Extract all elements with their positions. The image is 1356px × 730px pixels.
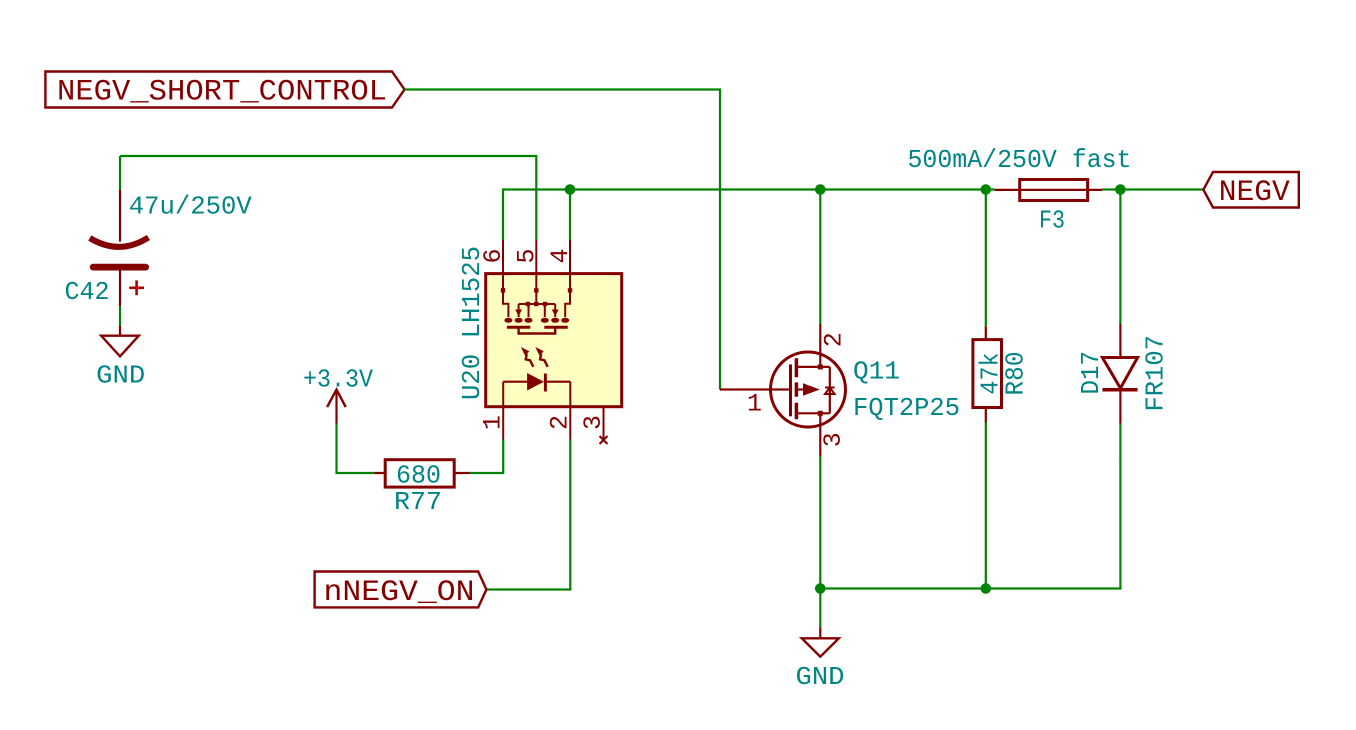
- U20 pin 4: [546, 240, 575, 317]
- wire U20 pin 4 branch: [569, 190, 571, 241]
- U20 LED diode: [503, 373, 570, 392]
- U20 pin 6: [479, 240, 508, 317]
- optocoupler U20 body: [486, 274, 622, 407]
- wire to GND bottom: [819, 589, 821, 628]
- power +3.3V: [303, 364, 373, 423]
- svg-text:2: 2: [819, 332, 848, 347]
- svg-text:F3: F3: [1039, 206, 1065, 236]
- wire +3.3V to R77: [337, 424, 375, 474]
- U20 pin 1: [479, 382, 508, 440]
- capacitor C42: [65, 190, 253, 307]
- svg-text:FR107: FR107: [1141, 335, 1171, 411]
- svg-text:R77: R77: [394, 487, 442, 517]
- junction node bus-Q11: [815, 184, 826, 195]
- junction node bus-D17: [1115, 184, 1126, 195]
- junction node bottom-R80: [981, 583, 992, 594]
- svg-text:6: 6: [479, 248, 508, 263]
- svg-text:5: 5: [512, 248, 541, 263]
- svg-text:GND: GND: [796, 662, 845, 692]
- wire NEGV bus left section: [503, 190, 995, 241]
- U20 LED light arrows: [521, 347, 548, 367]
- svg-text:R80: R80: [1001, 352, 1031, 396]
- transistor Q11: [720, 324, 960, 456]
- wire Q11 drain branch: [819, 190, 821, 325]
- svg-text:+3.3V: +3.3V: [303, 364, 373, 394]
- svg-text:4: 4: [546, 248, 575, 263]
- svg-text:nNEGV_ON: nNEGV_ON: [324, 576, 475, 610]
- ground GND left: [96, 326, 145, 391]
- wire C42 top pin segment: [119, 156, 121, 190]
- wire R77 to U20 pin 1: [470, 440, 504, 474]
- svg-text:680: 680: [396, 461, 441, 491]
- U20 pin 5: [512, 240, 541, 304]
- wire fuse to NEGV label: [1102, 188, 1203, 190]
- diode D17: [1076, 324, 1171, 424]
- svg-text:C42: C42: [65, 277, 110, 307]
- svg-text:2: 2: [545, 415, 574, 430]
- wire NEGV_SHORT_CONTROL to Q11 gate: [405, 90, 721, 390]
- U20 MOSFET pair structure: [504, 302, 569, 334]
- svg-text:1: 1: [479, 415, 508, 430]
- wire C42 top to U20 pin 5: [120, 156, 536, 240]
- resistor R77: [374, 460, 469, 517]
- junction node bus-pin4: [565, 184, 576, 195]
- wire R80 top branch: [985, 190, 987, 327]
- svg-text:47u/250V: 47u/250V: [129, 191, 252, 221]
- hierarchical label NEGV_SHORT_CONTROL: [45, 72, 404, 110]
- svg-text:500mA/250V fast: 500mA/250V fast: [908, 145, 1132, 175]
- junction node bottom-Q11: [815, 583, 826, 594]
- label NEGV: [1203, 172, 1298, 210]
- ground GND bottom: [796, 627, 845, 692]
- svg-text:3: 3: [579, 415, 608, 430]
- fuse F3: [908, 145, 1132, 236]
- svg-text:FQT2P25: FQT2P25: [853, 393, 960, 423]
- U20 pin 3 no-connect: [579, 407, 608, 444]
- resistor R80: [973, 326, 1031, 422]
- label nNEGV_ON: [315, 572, 487, 611]
- svg-text:1: 1: [747, 390, 762, 419]
- junction node bus-R80: [981, 184, 992, 195]
- wire R80 bottom: [985, 423, 987, 589]
- wire C42 bottom to GND: [119, 306, 121, 326]
- svg-text:GND: GND: [96, 361, 145, 391]
- svg-text:U20 LH1525: U20 LH1525: [457, 246, 487, 400]
- svg-text:NEGV: NEGV: [1219, 176, 1290, 210]
- svg-text:3: 3: [819, 432, 848, 447]
- U20 pin 2: [545, 382, 574, 440]
- svg-text:NEGV_SHORT_CONTROL: NEGV_SHORT_CONTROL: [57, 76, 387, 110]
- wire nNEGV_ON to U20 pin 2: [486, 440, 570, 590]
- svg-text:D17: D17: [1076, 351, 1106, 395]
- svg-text:Q11: Q11: [853, 357, 900, 387]
- wire D17 top branch: [1119, 190, 1121, 325]
- wire bottom bus: [820, 424, 1120, 589]
